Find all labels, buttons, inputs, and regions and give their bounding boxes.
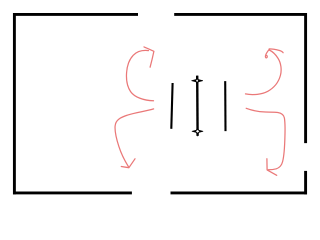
field arrow top-left: shaft bbox=[126, 47, 153, 101]
enclosure wall: bottom-left segment bbox=[13, 191, 132, 194]
enclosure wall: top-right segment bbox=[174, 13, 307, 16]
right plate bbox=[224, 81, 226, 131]
center dipole top star terminal bbox=[191, 75, 203, 86]
center dipole bottom star terminal bbox=[192, 126, 203, 137]
enclosure wall: right side lower segment bbox=[304, 171, 307, 195]
field arrow bottom-right bbox=[246, 108, 285, 175]
left plate bbox=[171, 83, 172, 129]
enclosure wall: left side bbox=[13, 13, 16, 194]
enclosure wall: right side upper segment bbox=[304, 13, 307, 143]
enclosure wall: top-left segment bbox=[13, 13, 138, 16]
field arrow bottom-left bbox=[115, 109, 154, 168]
field arrow top-right bbox=[246, 49, 284, 95]
center dipole shaft bbox=[196, 76, 199, 136]
enclosure wall: bottom-right segment bbox=[171, 191, 307, 194]
